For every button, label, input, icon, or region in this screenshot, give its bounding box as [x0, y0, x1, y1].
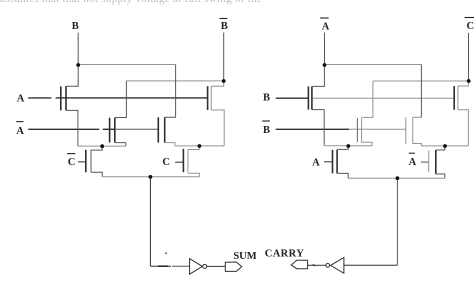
svg-text:A: A — [409, 157, 417, 168]
svg-text:C: C — [68, 157, 76, 168]
svg-text:C: C — [467, 21, 474, 32]
svg-text:CARRY: CARRY — [265, 248, 305, 259]
svg-text:A: A — [16, 126, 24, 137]
svg-text:A: A — [17, 93, 25, 104]
svg-text:A: A — [322, 22, 330, 33]
svg-text:B: B — [263, 92, 270, 103]
svg-text:SUM: SUM — [233, 251, 256, 262]
svg-text:B: B — [221, 21, 228, 32]
svg-text:C: C — [162, 157, 170, 168]
svg-text:A: A — [312, 157, 320, 168]
svg-text:B: B — [72, 21, 79, 32]
svg-text:B: B — [263, 125, 270, 136]
